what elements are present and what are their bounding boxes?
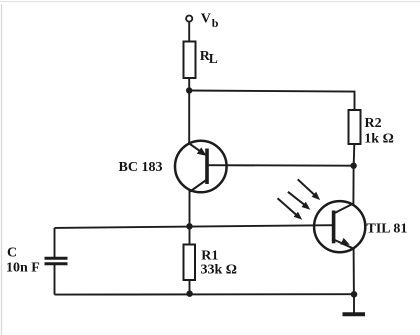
svg-text:33k Ω: 33k Ω: [201, 263, 238, 278]
wire capacitor to TIL81 base (through node C): [55, 225, 334, 228]
node C (emitter / R1 / cap junction): [186, 223, 192, 229]
transistor BC183 base bar: [205, 149, 209, 185]
light arrow 2: [288, 192, 310, 210]
resistor RL: [184, 42, 196, 79]
wire R2 bottom to node B: [353, 144, 356, 166]
label TIL 81: [367, 222, 408, 237]
transistor TIL81 circle: [314, 201, 365, 252]
label Vb: [201, 11, 219, 30]
bottom wire (cap to ground node): [55, 293, 355, 295]
node D (R1 bottom junction): [186, 291, 192, 297]
terminal Vb: [186, 16, 192, 22]
label C value: [6, 245, 40, 275]
light arrow 1: [298, 179, 320, 200]
capacitor C plates: [45, 258, 68, 263]
svg-text:b: b: [212, 16, 219, 30]
wire BC183 emitter to node C: [189, 191, 191, 227]
label RL: [200, 49, 218, 66]
wire node B down to TIL81 collector: [352, 166, 354, 206]
wire capacitor bottom lead: [54, 264, 56, 295]
wire ground stub: [353, 294, 355, 313]
wire Vb to RL: [188, 22, 190, 42]
label R1 value: [201, 249, 238, 278]
wire R1 to node D: [189, 280, 191, 294]
svg-text:C: C: [7, 245, 17, 260]
label R2 value: [364, 116, 394, 146]
svg-text:1k Ω: 1k Ω: [364, 131, 394, 146]
ground: [343, 312, 366, 316]
node B (R2 / base / TIL81 collector junction): [350, 163, 356, 169]
svg-text:R2: R2: [365, 116, 382, 131]
node E (ground junction): [351, 291, 358, 298]
wire capacitor top lead: [54, 228, 56, 259]
svg-text:V: V: [201, 11, 211, 26]
wire node C to R1: [189, 226, 191, 245]
resistor R1: [184, 245, 196, 281]
transistor BC183 circle: [175, 141, 227, 193]
wire TIL81 emitter to ground node: [353, 248, 355, 294]
svg-text:TIL 81: TIL 81: [367, 222, 408, 237]
wire node A to BC183 collector: [188, 91, 190, 145]
transistor TIL81 emitter lead with arrow: [334, 238, 353, 248]
wire node B to BC183 base: [207, 164, 353, 167]
light arrow 3: [278, 198, 303, 220]
transistor BC183 collector lead with arrow: [189, 144, 206, 156]
resistor R2: [349, 110, 361, 144]
wire node A to R2 top: [189, 91, 354, 111]
transistor BC183 emitter lead: [190, 180, 207, 192]
svg-text:BC 183: BC 183: [119, 160, 163, 175]
transistor TIL81 base bar: [332, 211, 336, 244]
svg-text:R1: R1: [201, 249, 218, 264]
svg-text:L: L: [209, 51, 218, 66]
transistor TIL81 collector lead: [334, 203, 354, 213]
svg-text:10n F: 10n F: [6, 260, 40, 275]
label BC 183: [119, 160, 163, 175]
wire RL to node A: [188, 78, 190, 91]
node A (RL / collector / R2 junction): [186, 87, 192, 93]
